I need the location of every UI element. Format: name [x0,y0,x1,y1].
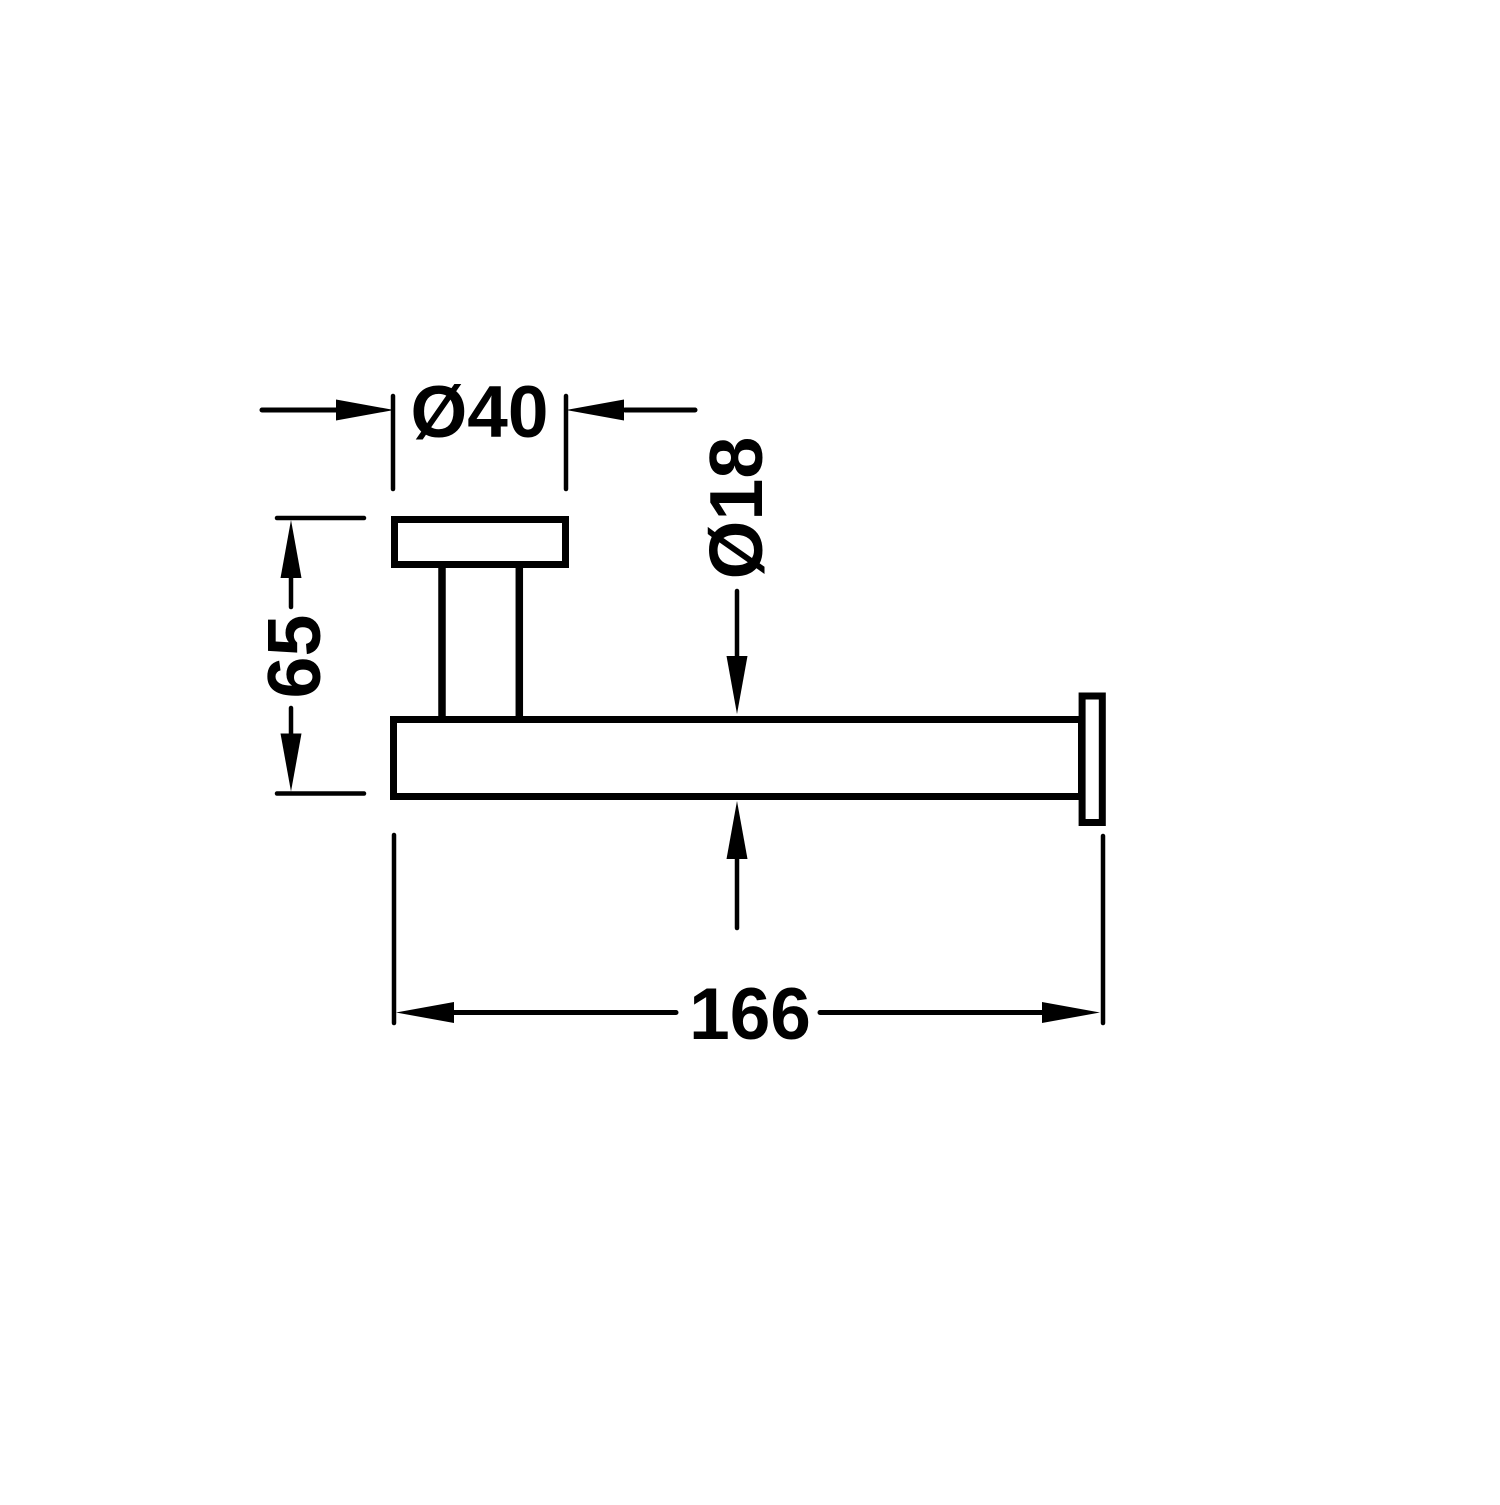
stem right wire [516,564,524,720]
dim 166: right extension line [1101,836,1106,1023]
dim Ø40: right extension line [564,396,569,489]
dim 166: left extension line [392,835,397,1023]
dim 65: down arrowhead [281,734,302,792]
dim 166: right dimension line [820,1010,1046,1015]
svg-text:65: 65 [252,615,336,699]
dim 166: left dimension line [450,1010,676,1015]
dim Ø40: left leader line [262,408,340,413]
dim Ø40: left extension line [391,396,396,489]
dim 166: right arrowhead [1042,1002,1100,1023]
dim 65: up arrowhead [281,520,302,578]
dim Ø18: lower stem line [735,857,740,928]
dim Ø40: right arrowhead [566,400,624,421]
svg-text:166: 166 [689,974,811,1055]
stem left wire [438,564,446,720]
dim Ø40: left arrowhead [336,400,394,421]
dim Ø18: down arrowhead to bar top [727,656,748,714]
dim 65: lower stem line [289,708,294,737]
dim Ø18: up arrowhead to bar bottom [727,801,748,859]
horizontal bar (Ø18 roll holder arm) [394,720,1082,797]
end cap [1082,696,1102,823]
dim 166: left arrowhead [396,1002,454,1023]
dim 65: top tick [277,516,364,521]
dim Ø18: upper stem line [735,591,740,658]
dim 65: upper stem line [289,576,294,607]
svg-text:Ø40: Ø40 [411,372,549,453]
wall flange (top plate, Ø40) [395,520,566,565]
dim 65: bottom tick [277,791,364,796]
svg-text:Ø18: Ø18 [694,437,778,580]
dim Ø40: right leader line [625,408,695,413]
